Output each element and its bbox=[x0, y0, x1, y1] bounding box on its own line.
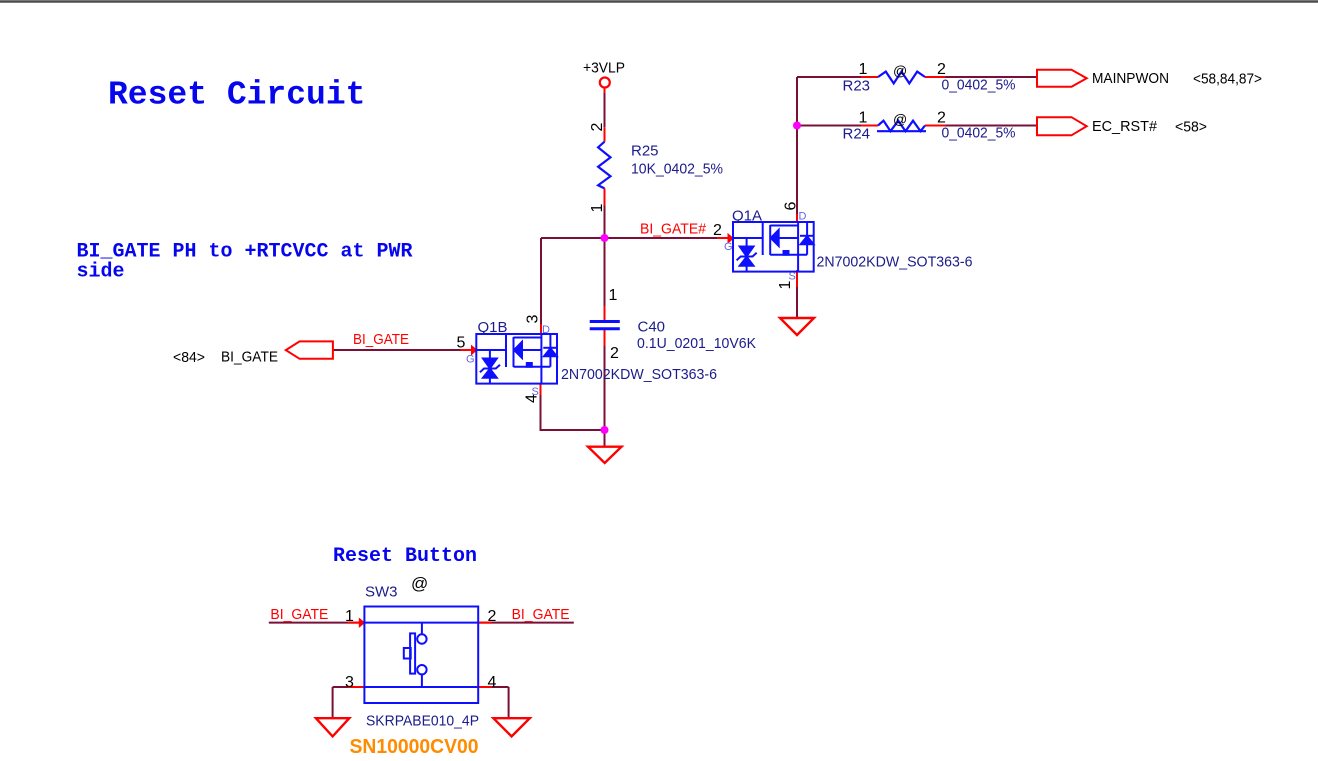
svg-text:@: @ bbox=[411, 574, 428, 593]
svg-text:6: 6 bbox=[783, 202, 800, 211]
svg-text:G: G bbox=[724, 241, 733, 253]
svg-text:<58,84,87>: <58,84,87> bbox=[1193, 71, 1262, 88]
svg-text:BI_GATE: BI_GATE bbox=[221, 349, 278, 366]
svg-text:2: 2 bbox=[937, 61, 946, 78]
svg-text:R23: R23 bbox=[843, 78, 871, 95]
svg-text:Reset Circuit: Reset Circuit bbox=[108, 77, 365, 114]
svg-text:BI_GATE: BI_GATE bbox=[270, 606, 328, 623]
svg-text:C40: C40 bbox=[638, 319, 666, 336]
svg-text:3: 3 bbox=[345, 674, 354, 691]
svg-text:Q1B: Q1B bbox=[478, 319, 508, 336]
svg-text:2: 2 bbox=[610, 345, 619, 362]
svg-text:BI_GATE: BI_GATE bbox=[353, 331, 409, 348]
svg-text:BI_GATE: BI_GATE bbox=[512, 606, 570, 623]
svg-text:G: G bbox=[466, 354, 475, 366]
svg-text:10K_0402_5%: 10K_0402_5% bbox=[631, 161, 723, 178]
svg-text:Q1A: Q1A bbox=[732, 208, 762, 225]
svg-text:MAINPWON: MAINPWON bbox=[1092, 70, 1169, 87]
svg-text:1: 1 bbox=[859, 61, 868, 78]
svg-text:2: 2 bbox=[488, 608, 497, 625]
svg-text:BI_GATE#: BI_GATE# bbox=[640, 221, 707, 238]
svg-text:@: @ bbox=[893, 111, 907, 127]
svg-text:D: D bbox=[542, 324, 550, 336]
svg-text:1: 1 bbox=[345, 608, 354, 625]
svg-text:D: D bbox=[799, 211, 807, 223]
svg-text:+3VLP: +3VLP bbox=[583, 60, 625, 77]
svg-text:R25: R25 bbox=[631, 143, 659, 160]
svg-text:4: 4 bbox=[488, 674, 497, 691]
svg-text:2: 2 bbox=[713, 222, 722, 239]
svg-text:<58>: <58> bbox=[1175, 119, 1207, 136]
svg-text:BI_GATE PH to +RTCVCC at PWR: BI_GATE PH to +RTCVCC at PWR bbox=[77, 241, 413, 264]
svg-text:@: @ bbox=[893, 63, 907, 79]
svg-text:0_0402_5%: 0_0402_5% bbox=[942, 77, 1016, 94]
svg-text:Reset Button: Reset Button bbox=[333, 545, 477, 568]
svg-text:SN10000CV00: SN10000CV00 bbox=[350, 736, 479, 758]
svg-text:1: 1 bbox=[589, 204, 606, 213]
svg-text:S: S bbox=[789, 271, 796, 283]
svg-text:EC_RST#: EC_RST# bbox=[1092, 118, 1158, 135]
svg-text:side: side bbox=[77, 261, 125, 284]
svg-text:SW3: SW3 bbox=[365, 584, 398, 601]
svg-text:1: 1 bbox=[609, 287, 618, 304]
svg-text:<84>: <84> bbox=[173, 349, 205, 366]
svg-text:0_0402_5%: 0_0402_5% bbox=[942, 125, 1016, 142]
svg-text:2N7002KDW_SOT363-6: 2N7002KDW_SOT363-6 bbox=[817, 253, 973, 270]
svg-text:2: 2 bbox=[589, 123, 606, 132]
svg-text:S: S bbox=[532, 386, 539, 398]
svg-text:1: 1 bbox=[859, 110, 868, 127]
svg-text:R24: R24 bbox=[843, 126, 871, 143]
svg-text:SKRPABE010_4P: SKRPABE010_4P bbox=[366, 713, 479, 730]
svg-text:0.1U_0201_10V6K: 0.1U_0201_10V6K bbox=[637, 335, 756, 352]
svg-text:2N7002KDW_SOT363-6: 2N7002KDW_SOT363-6 bbox=[561, 366, 717, 383]
svg-text:3: 3 bbox=[525, 315, 542, 324]
svg-text:5: 5 bbox=[457, 335, 466, 352]
